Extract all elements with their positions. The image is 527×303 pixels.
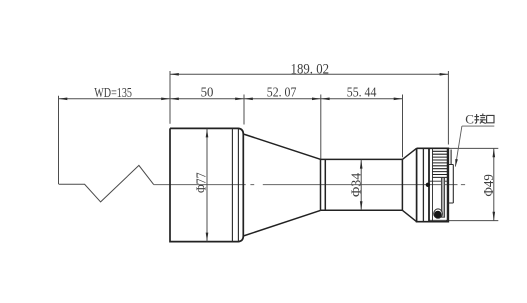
dia77 dimension line bbox=[206, 129, 208, 242]
chamfer to rear barrel bbox=[402, 148, 416, 221]
front barrel outline bbox=[170, 128, 243, 241]
extension line front of lens x=170 bbox=[169, 71, 171, 124]
inner bottom line bbox=[429, 219, 448, 221]
front barrel inner ring lines bbox=[232, 129, 238, 242]
svg-text:50: 50 bbox=[201, 84, 214, 99]
knurl hatch lines on focus ring bbox=[433, 151, 449, 177]
dimension line 189.02 bbox=[170, 73, 448, 75]
object break line (zigzag object plane) bbox=[59, 165, 154, 202]
slot bar bbox=[441, 178, 444, 218]
svg-text:Φ77: Φ77 bbox=[193, 172, 208, 193]
rear barrel inner rings bbox=[422, 149, 424, 222]
extension line x=244 bbox=[243, 95, 245, 125]
extension lines for dia49 bbox=[446, 148, 498, 220]
dia49 dimension line bbox=[493, 148, 495, 220]
svg-text:WD=135: WD=135 bbox=[94, 85, 132, 100]
dia34 dimension line bbox=[360, 160, 362, 210]
glyph kou (CJK box) bbox=[487, 115, 494, 122]
cone section bbox=[243, 134, 320, 236]
ring boundary line bbox=[429, 180, 448, 182]
C-mount spigot bbox=[449, 150, 454, 204]
label underline bbox=[462, 125, 494, 127]
centerline (lens optical axis, dash-dot) bbox=[154, 184, 465, 186]
svg-text:C: C bbox=[465, 111, 474, 126]
leader line for C-mount label bbox=[455, 126, 462, 167]
svg-text:Φ49: Φ49 bbox=[481, 174, 496, 197]
thumbscrew washer bbox=[434, 209, 443, 218]
svg-text:189. 02: 189. 02 bbox=[291, 62, 330, 78]
svg-text:52. 07: 52. 07 bbox=[267, 84, 297, 99]
rear barrel outline bbox=[417, 148, 449, 221]
glyph jie (CJK) bbox=[474, 114, 485, 124]
extension line x=402.5 bbox=[402, 95, 404, 158]
thumbscrew head bbox=[434, 211, 441, 218]
svg-text:Φ34: Φ34 bbox=[349, 172, 364, 197]
extension line WD left bbox=[58, 96, 60, 184]
extension line rear flange x=448.4 bbox=[447, 71, 449, 145]
small cylinder bbox=[321, 159, 403, 210]
set screw dot bbox=[426, 183, 430, 187]
svg-text:55. 44: 55. 44 bbox=[347, 84, 377, 99]
extension line x=320.8 bbox=[320, 95, 322, 159]
dimension line row WD=135 / 50 / 52.07 / 55.44 bbox=[59, 98, 403, 100]
